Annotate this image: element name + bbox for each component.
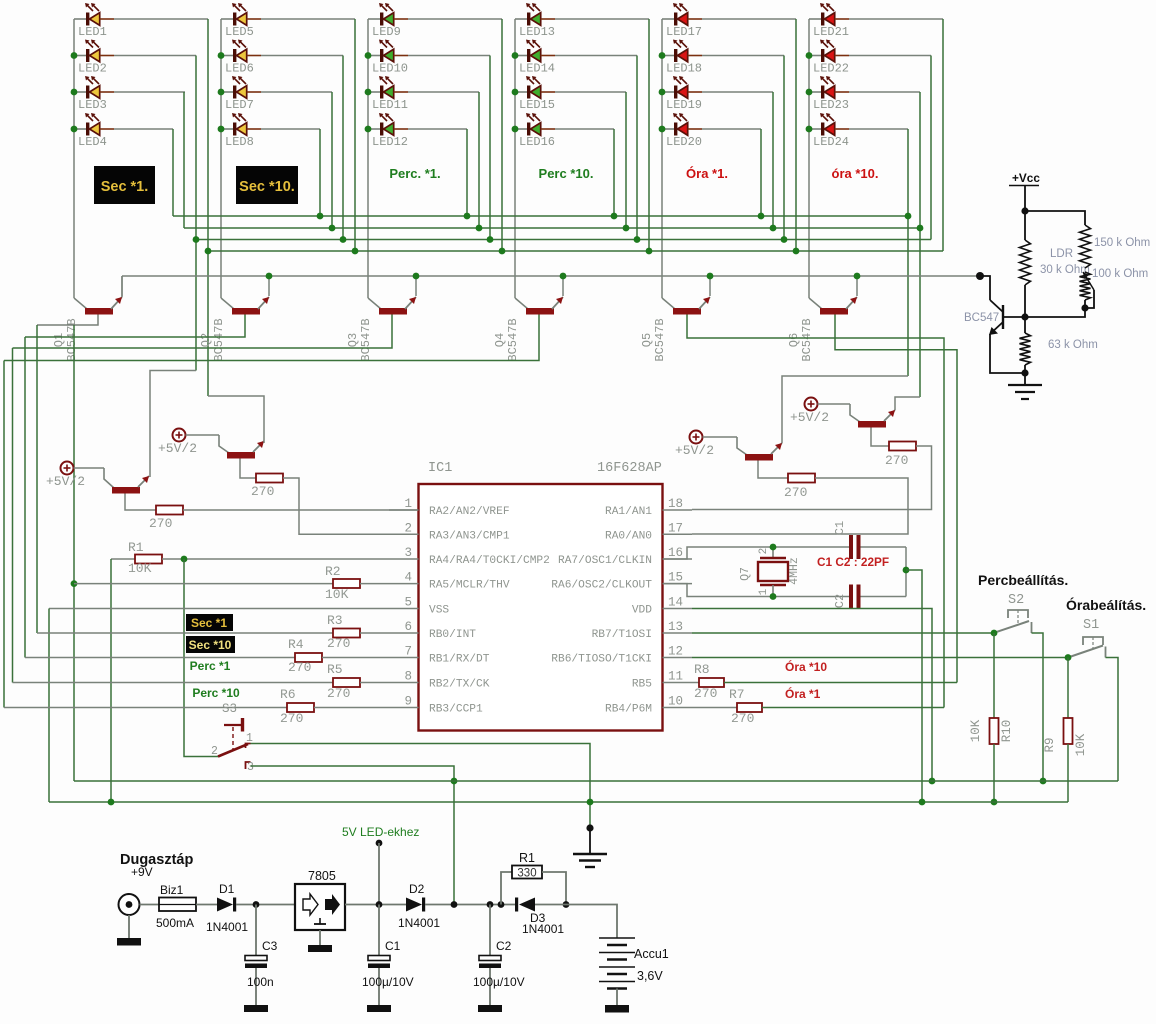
ground symbol (analog) [1008,385,1042,399]
wire Q4 emitter to rail [562,276,564,296]
IC pin 18 stub [663,509,693,511]
svg-text:+5V/2: +5V/2 [158,441,197,456]
LED1 [74,3,114,26]
junction bus row1 col1 [205,248,212,255]
label box Sec *1. [94,166,155,204]
svg-text:RB2/TX/CK: RB2/TX/CK [429,679,490,691]
wire pot to base node [1025,308,1085,317]
svg-text:7: 7 [404,645,412,659]
svg-text:15: 15 [668,571,683,585]
wire T9 res to pin1 [183,509,418,511]
svg-text:LED19: LED19 [666,98,702,112]
wire pin16 to crystal net [663,547,849,559]
LED22 [809,40,849,63]
wire T10 res to pin2 [283,478,418,534]
junction column 6 row 2 [806,52,813,59]
svg-text:Sec *1.: Sec *1. [101,179,149,195]
IC pin 16 stub [663,558,693,560]
svg-text:C1: C1 [833,521,847,535]
resistor R10 10K [993,633,995,718]
wire C2 right [861,596,907,598]
svg-text:4MHz: 4MHz [788,557,801,585]
junction column 3 row 3 [365,89,372,96]
svg-text:9: 9 [404,695,412,709]
svg-text:BC547: BC547 [964,312,999,324]
junction column 5 row 2 [659,52,666,59]
transistor Q5 collector wire [662,298,675,309]
wire LED18 to row bus [702,55,784,57]
svg-text:R5: R5 [327,662,343,677]
junction column 6 row 4 [806,126,813,133]
wire pin15 to crystal net [663,584,849,597]
junction C1 node [376,901,383,908]
LED16 [515,113,555,136]
svg-text:R10: R10 [1000,720,1014,743]
junction emitter rail Q6 [854,273,861,280]
svg-text:Perc *10: Perc *10 [192,686,240,700]
svg-text:RB6/TIOSO/T1CKI: RB6/TIOSO/T1CKI [551,654,652,666]
+5V/2 supply for T11 [690,431,703,444]
wire caps common right [905,547,907,597]
junction caps common [903,567,910,574]
svg-text:4: 4 [404,571,412,585]
svg-text:1N4001: 1N4001 [398,916,440,930]
wire LED7 to row bus [261,91,332,93]
transistor Q3 BC547B [379,297,416,315]
wire row bus 4 (y216) [173,215,908,217]
svg-text:330: 330 [517,868,536,880]
svg-text:LED4: LED4 [78,135,107,149]
wire 7805 to D2 [345,904,406,906]
label box Sec *1 [186,614,233,631]
LED3 [74,76,114,99]
svg-text:R8: R8 [694,662,710,677]
svg-text:11: 11 [668,670,683,684]
resistor 270 (T11 base) [758,461,788,479]
svg-text:+5V/2: +5V/2 [46,474,85,489]
svg-text:LED21: LED21 [813,25,849,39]
transistor Q2 BC547B [232,297,269,315]
svg-text:6: 6 [404,620,412,634]
svg-text:270: 270 [694,686,717,701]
wire net Q2->pin7 [24,337,26,658]
svg-text:63 k Ohm: 63 k Ohm [1048,339,1098,351]
svg-text:R1: R1 [128,540,144,555]
svg-text:10K: 10K [128,561,152,576]
svg-text:+9V: +9V [131,865,153,879]
svg-text:100 k Ohm: 100 k Ohm [1092,268,1148,280]
wire Q6 base line to R8 [835,315,957,683]
IC pin 12 stub [663,657,693,659]
transistor Q4 collector wire [515,298,528,309]
svg-text:14: 14 [668,596,683,610]
resistor 270 (T9 base) [125,494,156,511]
junction R1/S3 [181,556,188,563]
junction column 3 row 4 [365,126,372,133]
wire Q3 base line [13,315,393,349]
transistor T11 (row driver) [703,437,783,461]
transistor Q1 collector wire [74,298,87,309]
resistor R1 10K [111,558,135,560]
LED18 [662,40,702,63]
svg-text:C3: C3 [262,939,278,953]
junction gnd symbol/gnd bus [587,799,594,806]
switch S1 [1068,637,1106,658]
svg-text:Q3: Q3 [346,333,360,347]
IC pin 17 stub [663,533,693,535]
wire LED3 to row bus [114,91,185,93]
wire gnd bus (y802) [49,801,1068,803]
connector jack +9V [117,894,141,946]
svg-text:LED24: LED24 [813,135,849,149]
wire column 5 anode vertical [661,19,663,298]
wire +5 bus (y781) [74,780,1118,782]
junction emitter/63k [1021,369,1028,376]
svg-text:S3: S3 [222,702,237,716]
junction S2/bus781 [1040,778,1047,785]
LED9 [368,3,408,26]
svg-text:500mA: 500mA [156,916,194,930]
svg-text:1: 1 [404,497,412,511]
junction column 5 row 4 [659,126,666,133]
wire column 1 anode vertical [73,19,75,298]
junction pin14 bus781 [929,778,936,785]
wire column 2 anode vertical [220,19,222,298]
wire +5 riser / pin4 column [73,325,75,781]
wire Q6 emitter to rail [856,276,858,296]
wire net Q1->pin6 [36,325,38,633]
svg-text:LED13: LED13 [519,25,555,39]
resistor R8 270 (pin11) [692,682,699,684]
label Dugasztap +9V [120,852,193,879]
svg-text:Perc. *1.: Perc. *1. [389,166,440,181]
svg-text:LED2: LED2 [78,62,107,76]
wire S2 right to bus781 [1032,633,1044,781]
svg-text:3,6V: 3,6V [637,969,663,983]
svg-text:100µ/10V: 100µ/10V [473,975,525,989]
svg-text:R7: R7 [729,687,745,702]
wire LED6 to row bus [261,55,343,57]
svg-text:2: 2 [404,521,412,535]
IC pin 1 stub [389,509,419,511]
junction bus row1 col5 [793,248,800,255]
wire LED drops col2 [354,19,356,251]
junction bus row3 col2 [329,225,336,232]
svg-text:100µ/10V: 100µ/10V [362,975,414,989]
resistor 270 (T10 base) [240,459,256,479]
transistor T9 (row driver) [74,468,150,494]
svg-text:LED1: LED1 [78,25,107,39]
junction R1 riser/gnd bus [108,799,115,806]
svg-text:LED6: LED6 [225,62,254,76]
svg-text:RA7/OSC1/CLKIN: RA7/OSC1/CLKIN [558,555,652,567]
LED23 [809,76,849,99]
junction column 4 row 4 [512,126,519,133]
wire R9 to gnd bus end [1067,744,1069,802]
switch S2 [994,610,1032,633]
svg-text:10: 10 [668,695,683,709]
svg-text:IC1: IC1 [428,461,452,476]
wire C1 right [861,546,907,548]
svg-text:10K: 10K [969,719,983,742]
junction base node [1021,313,1028,320]
IC pin 4 stub [389,583,419,585]
wire Q5 base line to R7 [687,315,944,708]
wire LED drops col4 [648,19,650,251]
svg-text:17: 17 [668,521,683,535]
svg-text:2: 2 [758,548,770,555]
svg-text:+Vcc: +Vcc [1012,171,1040,185]
svg-text:LDR: LDR [1050,248,1073,260]
wire pin12 to S1 [692,657,1068,659]
wire D1 to 7805 [236,904,295,906]
IC pin 8 stub [389,682,419,684]
wire LED5 to row bus [261,18,355,20]
svg-text:RB0/INT: RB0/INT [429,629,476,641]
LED7 [221,76,261,99]
wire +Vcc stem [1024,186,1026,240]
junction emitter rail to BC547 (black) [976,272,984,280]
svg-text:RA6/OSC2/CLKOUT: RA6/OSC2/CLKOUT [551,580,652,592]
regulator 7805 [295,869,345,952]
resistor 63k [1020,333,1031,365]
wire LED21 to row bus [849,18,943,20]
wire pot bottom loop [1085,290,1094,308]
wire T11 emitter to row4 bus [782,376,908,443]
transistor Q4 BC547B [526,297,563,315]
IC pin 7 stub [389,657,419,659]
svg-text:270: 270 [288,660,311,675]
svg-text:Órabeálítás.: Órabeálítás. [1066,596,1146,613]
capacitor C2 100u/10V [478,905,502,1013]
svg-text:LED5: LED5 [225,25,254,39]
junction bus row3 col4 [623,225,630,232]
LED20 [662,113,702,136]
wire LED13 to row bus [555,18,649,20]
svg-text:Percbeállítás.: Percbeállítás. [978,572,1068,588]
svg-text:R2: R2 [325,564,341,579]
svg-text:C1: C1 [385,939,401,953]
svg-text:7805: 7805 [308,869,336,883]
wire D2 right [425,904,515,906]
svg-text:RB4/P6M: RB4/P6M [605,704,652,716]
svg-text:100n: 100n [247,975,274,989]
wire pin13 to S2 [692,632,994,634]
svg-text:18: 18 [668,497,683,511]
svg-text:óra *10.: óra *10. [832,166,879,181]
svg-text:LED22: LED22 [813,62,849,76]
resistor LDR 30k [1020,240,1031,285]
wire LED drops col3 [501,19,503,251]
junction bus row4 col4 [611,213,618,220]
svg-text:+5V/2: +5V/2 [790,410,829,425]
svg-text:270: 270 [327,636,350,651]
diode D1 1N4001 [217,898,236,912]
battery Accu1 3,6V [599,938,635,1013]
svg-text:Q6: Q6 [787,333,801,347]
svg-text:RA3/AN3/CMP1: RA3/AN3/CMP1 [429,530,510,542]
svg-text:270: 270 [731,711,754,726]
resistor R3 270 [37,632,333,634]
label +Vcc [1009,171,1040,186]
wire LDR bottom [1024,285,1026,333]
wire BC547 collector [980,276,990,300]
capacitor C2 22PF [849,585,861,609]
wire Q4 base line [4,315,539,361]
svg-text:Óra *10: Óra *10 [785,659,827,674]
svg-text:Biz1: Biz1 [160,883,184,897]
svg-text:R4: R4 [288,637,304,652]
wire Q2 base line [25,315,245,338]
wire LED2 to row bus [114,55,196,57]
diode D3 1N4001 (reversed) [515,898,535,912]
svg-text:Accu1: Accu1 [634,947,669,961]
svg-text:16F628AP: 16F628AP [597,461,662,476]
diode D2 1N4001 [406,898,425,912]
potentiometer 100k [1080,272,1091,300]
wire LED drops col6 [907,129,909,376]
wire pin5 VSS [49,608,389,610]
svg-text:LED14: LED14 [519,62,555,76]
wire R1 to pin3 [162,558,389,560]
junction column 1 row 4 [71,126,78,133]
transistor BC547 (analog) [989,300,1025,335]
wire S1 right to bus781 end [1106,658,1119,782]
svg-text:C2: C2 [833,594,847,608]
resistor R7 270 (pin10) [692,707,737,709]
wire LED24 to row bus [849,128,908,130]
wire S3 pin1 row to ground stem [251,744,591,829]
svg-text:C1 C2 : 22PF: C1 C2 : 22PF [817,555,889,569]
wire LED14 to row bus [555,55,637,57]
wire row bus 1 (y251) [208,250,943,252]
junction vcc node [1021,207,1028,214]
LED21 [809,3,849,26]
junction pot out [1081,304,1088,311]
junction bus row4 col6 [905,213,912,220]
svg-text:R9: R9 [1043,737,1057,752]
svg-text:270: 270 [885,453,908,468]
svg-text:D1: D1 [219,882,235,896]
svg-text:LED16: LED16 [519,135,555,149]
svg-text:Q5: Q5 [640,333,654,347]
svg-text:BC547B: BC547B [359,318,373,361]
svg-text:Perc *10.: Perc *10. [539,166,594,181]
svg-text:10K: 10K [325,587,349,602]
svg-text:BC547B: BC547B [212,318,226,361]
junction R1 left node [498,901,505,908]
wire T12 emitter to row3 bus [895,397,920,410]
LED14 [515,40,555,63]
transistor T10 (row driver) [186,435,265,459]
label box Sec *10 [186,636,235,653]
wire column 4 anode vertical [514,19,516,298]
svg-text:BC547B: BC547B [800,318,814,361]
transistor Q1 BC547B [85,297,122,315]
wire LED11 to row bus [408,91,479,93]
wire S3 riser from R1 node [184,559,218,757]
svg-text:12: 12 [668,645,683,659]
svg-text:270: 270 [280,711,303,726]
wire LED19 to row bus [702,91,773,93]
crystal Q7 4MHz [758,547,788,597]
wire LED17 to row bus [702,18,796,20]
svg-text:S2: S2 [1008,593,1024,608]
junction R10/bus802 [991,799,998,806]
resistor 150k [1080,225,1091,268]
capacitor C1 100u/10V [367,905,391,1013]
wire LED drops col5 [795,19,797,251]
junction emitter rail Q4 [560,273,567,280]
wire net Q4->pin9 [3,361,5,708]
junction column 2 row 4 [218,126,225,133]
LED17 [662,3,702,26]
wire LED1 to row bus [114,18,208,20]
svg-text:LED9: LED9 [372,25,401,39]
svg-text:+5V/2: +5V/2 [675,443,714,458]
wire Q5 emitter to rail [709,276,711,296]
wire net Q3->pin8 [12,348,14,683]
svg-text:Óra *1: Óra *1 [785,686,821,701]
svg-text:3: 3 [404,546,412,560]
svg-text:VDD: VDD [632,605,652,617]
wire BC547 emitter [990,334,1025,373]
svg-text:270: 270 [784,485,807,500]
junction bus row2 col2 [340,236,347,243]
LED5 [221,3,261,26]
transistor Q6 collector wire [809,298,822,309]
svg-text:5: 5 [404,596,412,610]
wire Q1 base line [37,315,98,326]
junction pin4 tee [71,580,78,587]
wire T9 emitter to row2 bus [150,371,196,478]
wire column 3 anode vertical [367,19,369,298]
junction bus row4 col2 [317,213,324,220]
wire LED4 to row bus [114,128,173,130]
svg-text:150 k Ohm: 150 k Ohm [1094,237,1150,249]
wire LED20 to row bus [702,128,761,130]
svg-text:C2: C2 [496,939,512,953]
resistor R4 270 [25,657,295,659]
svg-text:D2: D2 [409,882,425,896]
junction emitter rail Q3 [413,273,420,280]
svg-text:270: 270 [327,686,350,701]
wire LED15 to row bus [555,91,626,93]
LED13 [515,3,555,26]
svg-text:Q1: Q1 [52,333,66,347]
svg-text:Q2: Q2 [199,333,213,347]
wire Q2 emitter to rail [268,276,270,296]
svg-text:RB7/T1OSI: RB7/T1OSI [592,629,652,641]
svg-text:S1: S1 [1083,618,1099,633]
svg-text:10K: 10K [1074,733,1088,756]
svg-text:Óra *1.: Óra *1. [686,166,728,181]
junction S2 left [991,630,998,637]
wire T12 res to pin17 [692,446,932,510]
switch S3 [211,702,254,774]
resistor 270 (T12 base) [871,428,889,447]
svg-text:LED15: LED15 [519,98,555,112]
svg-text:Q7: Q7 [739,567,752,581]
IC pin 3 stub [389,558,419,560]
junction bus row3 col3 [476,225,483,232]
LED12 [368,113,408,136]
junction bus row2 col1 [193,236,200,243]
junction bus row4 col3 [464,213,471,220]
junction column 4 row 2 [512,52,519,59]
LED6 [221,40,261,63]
wire R1 left riser [110,559,112,802]
